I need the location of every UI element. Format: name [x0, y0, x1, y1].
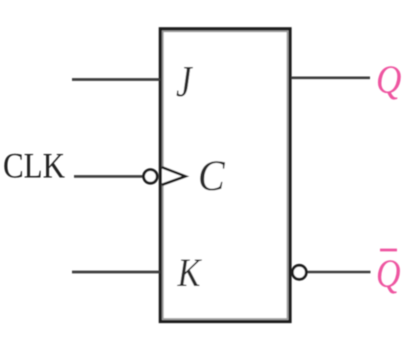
svg-text:J: J: [176, 56, 194, 106]
wire Q-bar output: [307, 271, 371, 274]
inversion bubble on clock input: [144, 170, 158, 184]
wire J input: [72, 78, 160, 81]
svg-text:Q: Q: [376, 253, 401, 297]
svg-text:K: K: [177, 252, 203, 296]
svg-text:C: C: [198, 152, 226, 200]
wire CLK input: [74, 175, 145, 178]
flip-flop body U1: [160, 29, 290, 322]
inversion bubble on Q-bar output: [292, 265, 306, 279]
svg-text:CLK: CLK: [3, 146, 65, 186]
dynamic clock edge triangle: [162, 167, 186, 185]
label Q-bar output (pink, with overbar): [376, 250, 401, 297]
wire K input: [72, 271, 160, 274]
wire Q output: [291, 77, 370, 80]
svg-text:Q: Q: [376, 58, 401, 103]
